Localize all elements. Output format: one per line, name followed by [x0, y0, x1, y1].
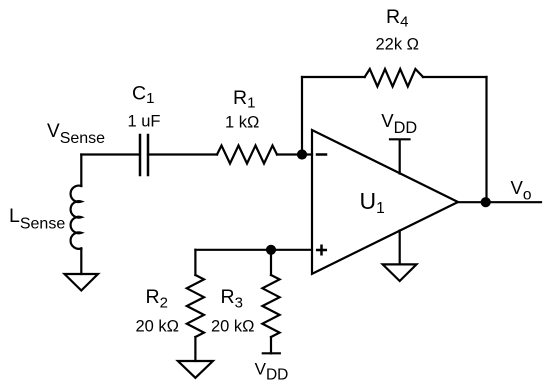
svg-text:VDD: VDD: [381, 110, 417, 137]
wire feedback top right: [423, 76, 487, 78]
wire output: [458, 201, 541, 203]
svg-text:20 kΩ: 20 kΩ: [211, 318, 255, 336]
junction node inverting input: [297, 149, 307, 159]
wire junction down to R3: [270, 250, 272, 275]
wire L_Sense to ground: [80, 248, 82, 274]
wire R1 to op-amp inverting input: [277, 153, 312, 155]
svg-text:R2: R2: [146, 286, 168, 312]
wire C1 to R1: [148, 153, 217, 155]
svg-text:22k Ω: 22k Ω: [376, 36, 420, 54]
junction node noninverting input: [266, 245, 276, 255]
wire feedback right vertical: [485, 77, 487, 202]
op-amp pin minus sign: [317, 153, 326, 156]
svg-text:1 kΩ: 1 kΩ: [225, 113, 259, 131]
capacitor C1 plates: [140, 135, 148, 175]
ground symbol (L_Sense): [65, 274, 99, 291]
resistor R2: [187, 275, 204, 337]
wire noninverting input horizontal: [195, 249, 312, 251]
svg-text:LSense: LSense: [9, 205, 65, 233]
op-amp U1 triangle: [312, 130, 458, 274]
wire feedback left vertical: [301, 77, 303, 155]
inductor L_Sense: [71, 186, 82, 249]
svg-text:R4: R4: [386, 6, 408, 31]
resistor R1: [217, 146, 277, 164]
wire R2 to ground: [194, 337, 196, 361]
wire R3 to V_DD: [270, 337, 272, 353]
svg-text:Vo: Vo: [511, 177, 532, 204]
svg-text:R3: R3: [221, 286, 243, 312]
svg-text:20 kΩ: 20 kΩ: [136, 318, 180, 336]
svg-text:R1: R1: [233, 87, 255, 112]
wire V_Sense corner down to L_Sense: [80, 155, 82, 187]
resistor R4: [365, 69, 423, 87]
power V_DD symbol at op-amp top: [390, 139, 410, 173]
svg-text:U1: U1: [360, 188, 385, 217]
op-amp pin plus sign: [317, 246, 326, 255]
wire op-amp bottom to ground: [399, 231, 401, 265]
power V_DD symbol below R3: [263, 352, 280, 354]
wire input horizontal V_Sense to C1: [81, 153, 139, 155]
resistor R3: [262, 275, 279, 337]
wire feedback top left: [302, 76, 365, 78]
junction node output: [481, 197, 491, 207]
svg-text:VSense: VSense: [47, 121, 105, 147]
svg-text:1 uF: 1 uF: [128, 113, 161, 131]
svg-text:VDD: VDD: [255, 359, 289, 383]
wire down to R2: [194, 250, 196, 275]
ground symbol (op-amp): [383, 264, 417, 281]
ground symbol (R2): [178, 361, 213, 378]
svg-text:C1: C1: [132, 82, 154, 107]
